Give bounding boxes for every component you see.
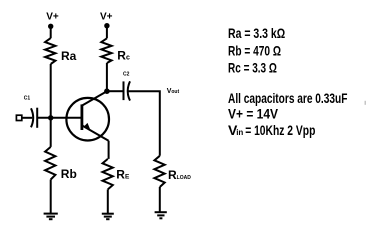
svg-text:RLOAD: RLOAD <box>168 168 191 182</box>
wire RLOAD to ground <box>159 187 161 212</box>
node V+ (right supply) <box>104 23 109 28</box>
wire V+ to Rc <box>106 26 108 39</box>
wire input to C1 <box>22 117 32 119</box>
node base junction <box>48 115 53 120</box>
resistor Rb <box>45 147 55 180</box>
svg-text:Vout: Vout <box>167 88 180 95</box>
wire V+ to Ra <box>50 26 52 38</box>
capacitor C1 <box>31 108 37 128</box>
svg-text:Ra: Ra <box>61 49 77 63</box>
ground (Rb) <box>44 214 58 220</box>
ground (RLOAD) <box>155 212 167 218</box>
wire C1 to base <box>37 117 81 119</box>
node V+ (left supply) <box>48 24 53 29</box>
node collector junction <box>104 88 110 94</box>
resistor RE <box>103 159 113 190</box>
svg-text:C2: C2 <box>123 71 130 77</box>
svg-text:All capacitors are 0.33uF: All capacitors are 0.33uF <box>228 90 348 106</box>
svg-text:Rb: Rb <box>61 167 77 181</box>
svg-text:Rc = 3.3 Ω: Rc = 3.3 Ω <box>228 60 277 76</box>
svg-text:Ra = 3.3 kΩ: Ra = 3.3 kΩ <box>228 25 285 41</box>
value label Vin <box>228 122 315 138</box>
ground (RE) <box>102 214 114 220</box>
svg-text:V+: V+ <box>100 12 113 23</box>
svg-text:RE: RE <box>116 168 130 182</box>
svg-text:Rb = 470 Ω: Rb = 470 Ω <box>228 42 281 58</box>
wire Rb to ground <box>50 180 52 214</box>
wire Ra to base node <box>50 64 52 118</box>
svg-text:= 10Khz 2 Vpp: = 10Khz 2 Vpp <box>245 122 315 138</box>
wire collector node to C2 <box>107 90 123 92</box>
resistor RLOAD <box>154 156 164 187</box>
svg-text:V+: V+ <box>46 12 59 23</box>
wire C2 to Vout corner <box>128 91 160 156</box>
svg-text:C1: C1 <box>24 95 31 101</box>
resistor Ra <box>45 38 55 64</box>
capacitor C2 <box>124 81 131 100</box>
resistor Rc <box>101 38 111 63</box>
svg-text:V+ = 14V: V+ = 14V <box>228 106 279 122</box>
wire RE to ground <box>107 189 109 213</box>
wire Rc to collector node <box>106 63 108 91</box>
stray mark <box>365 101 366 105</box>
wire emitter to RE <box>108 141 110 159</box>
svg-text:in: in <box>236 128 243 137</box>
input terminal <box>16 115 21 120</box>
svg-text:Rc: Rc <box>117 49 130 63</box>
transistor Q1 <box>66 91 109 141</box>
wire base node to Rb <box>50 118 52 147</box>
